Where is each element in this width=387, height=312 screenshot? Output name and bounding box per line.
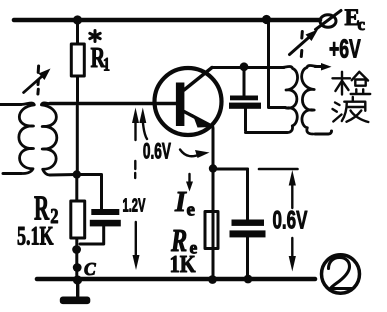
adjustment arrow near Ec [290,30,319,57]
wire capacitor C bottom lead [80,226,104,244]
wire secondary bottom stub [315,131,332,134]
resistor Re [205,212,218,249]
dimension 0.6V emitter [289,170,296,272]
wire collector to tank [212,66,284,69]
node junction dot ground/emitter [208,275,217,284]
transistor Q1 base bar [176,83,185,127]
transistor Q1 emitter lead with arrow [184,112,213,127]
terminal Ec circle [320,15,336,28]
terminal Ec slash [316,11,342,30]
svg-text:C: C [84,259,96,279]
star marker for R1 [90,31,100,42]
inductor L1b right winding of input transformer (to base) [41,103,56,175]
svg-text:1.2V: 1.2V [123,196,147,217]
wire winding bottom to bias node [50,173,77,177]
adjustment arrow for input transformer [24,66,51,94]
ground symbol [76,281,79,296]
wire R1 to bias node (crosses base wire) [76,106,79,172]
capacitor emitter bypass top lead [246,169,249,220]
svg-text:+6V: +6V [329,34,361,63]
node bias junction dot [73,170,81,178]
capacitor tank top lead [243,69,246,96]
transistor Q1 circle [155,68,222,135]
node junction dot R2/C [72,245,81,254]
svg-text:1: 1 [103,53,110,75]
node junction dot ground/R2 [73,275,82,284]
svg-text:I: I [174,187,187,218]
node C label dot [73,263,82,272]
wire input stub bottom left [3,172,21,175]
dimension 1.2V arrow line [132,108,140,271]
node junction dot emitter/bypass [209,164,217,172]
inductor L2b secondary winding of output transformer [302,66,319,134]
wire top supply rail [14,18,320,23]
svg-text:0.6V: 0.6V [273,206,309,234]
svg-text:1K: 1K [170,250,197,277]
node junction dot ground/bypass cap [244,275,253,284]
wire emitter node to bypass cap [213,168,248,171]
wire input stub top left [0,103,21,106]
wire secondary top stub with arrow [315,65,324,68]
resistor R2 [71,175,85,279]
svg-text:5.1K: 5.1K [17,221,54,250]
svg-text:0.6V: 0.6V [143,138,172,163]
wire base line [50,102,176,105]
node junction dot top rail / R1 [73,15,82,24]
label detector (bo) [333,97,369,122]
label detector (jian) [333,72,371,95]
transistor Q1 collector lead [184,68,212,91]
inductor L2a primary winding of output transformer [281,67,298,133]
wire bottom ground rail [37,277,315,282]
node junction dot collector/tank cap [240,62,249,71]
svg-text:e: e [187,200,195,221]
inductor L1a left winding of input transformer [19,103,34,174]
wire 0.6V reference segment [259,168,298,171]
wire tank bottom [246,131,288,134]
dimension 0.6V base-emitter [139,108,209,159]
figure number circled 2 [322,255,360,294]
capacitor emitter bypass bottom lead [246,237,249,278]
wire Ec feed vertical [269,22,286,108]
wire bias node to capacitor C [77,175,102,210]
emitter wire vertical [212,128,215,278]
capacitor emitter bypass plates [232,220,265,226]
svg-text:c: c [358,15,366,34]
resistor R1 [71,22,84,101]
capacitor tank bottom lead [244,109,247,131]
capacitor tank plates [230,96,258,101]
node junction dot top rail / Ec feed [262,15,271,24]
current Ie arrow [186,174,193,192]
capacitor C plates [91,209,119,215]
